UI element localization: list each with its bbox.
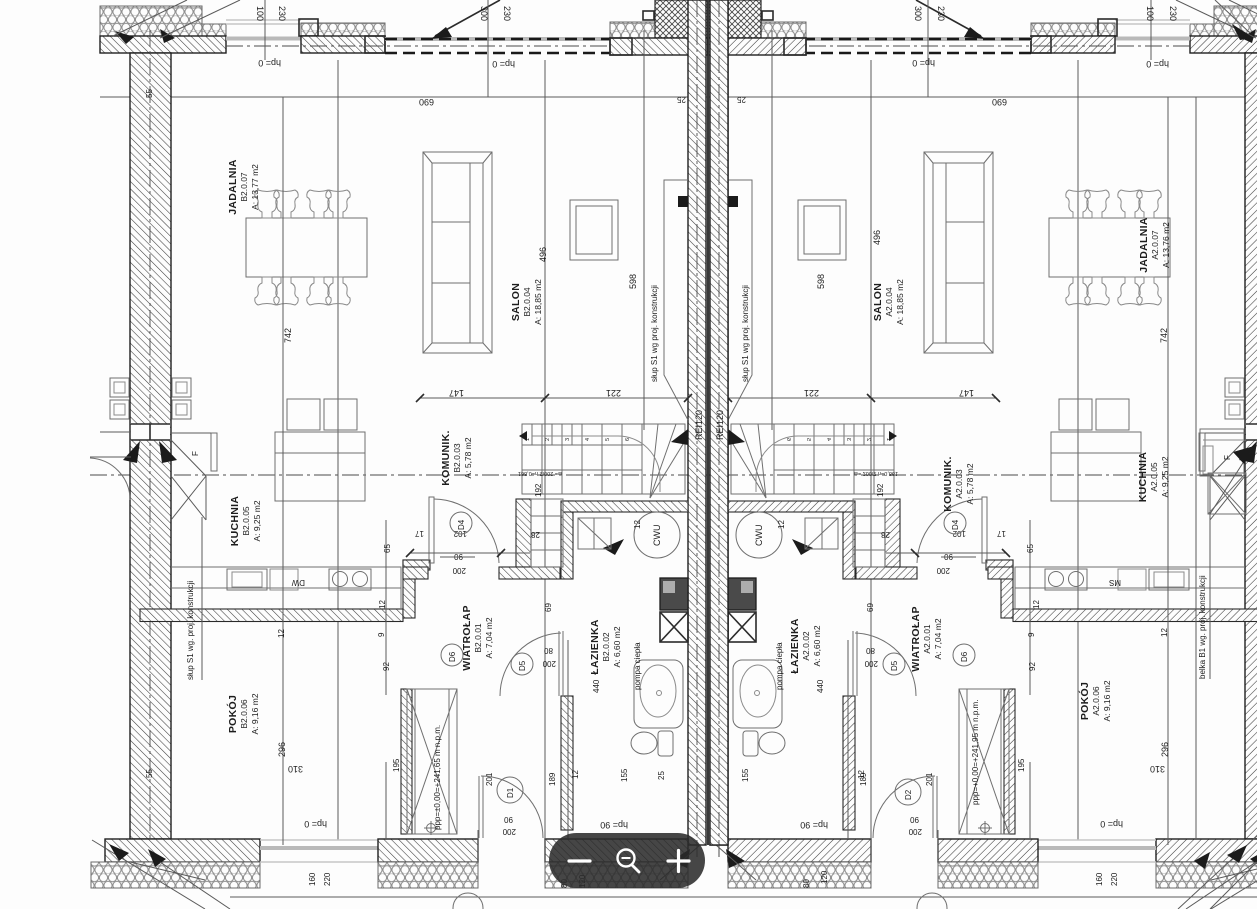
- svg-text:hp= 90: hp= 90: [600, 820, 628, 830]
- bottom wall middle segment: [378, 839, 478, 862]
- heat pump dark boxes: [660, 578, 688, 610]
- bathroom left wall lower segment: [561, 696, 573, 830]
- svg-text:A: 7,04 m2: A: 7,04 m2: [484, 617, 494, 658]
- heat pump unit upper: [578, 518, 611, 549]
- svg-text:A2.0.02: A2.0.02: [801, 631, 811, 661]
- door balloon D6 right: [953, 644, 975, 666]
- svg-text:310: 310: [288, 764, 303, 774]
- central flange hatched band (left half): [610, 38, 708, 55]
- stair tread numbers: [518, 438, 631, 476]
- wiatrolap left vertical wall: [403, 560, 415, 618]
- bathroom top wall: [563, 501, 688, 512]
- column S1 outline beside central wall: [664, 180, 688, 420]
- svg-text:A: 9,25 m2: A: 9,25 m2: [1160, 456, 1170, 497]
- svg-text:80: 80: [866, 646, 875, 655]
- svg-text:80: 80: [544, 646, 553, 655]
- room label KUCHNIA left: [229, 496, 262, 547]
- door balloon D5 left: [511, 653, 533, 675]
- svg-text:12: 12: [777, 520, 786, 529]
- svg-text:90: 90: [504, 815, 513, 824]
- svg-text:92: 92: [1028, 662, 1037, 671]
- svg-text:12: 12: [378, 600, 387, 609]
- svg-text:JADALNIA: JADALNIA: [1138, 217, 1150, 273]
- dim line bottom y=783: [385, 762, 387, 839]
- svg-text:12: 12: [857, 770, 866, 779]
- svg-text:A: 9,25 m2: A: 9,25 m2: [252, 500, 262, 541]
- svg-text:69: 69: [866, 603, 875, 612]
- svg-text:hp= 90: hp= 90: [800, 820, 828, 830]
- svg-text:496: 496: [538, 247, 548, 262]
- top arrow leader into opening: [435, 0, 500, 36]
- svg-text:KOMUNIK.: KOMUNIK.: [440, 430, 452, 485]
- svg-text:92: 92: [382, 662, 391, 671]
- svg-text:12: 12: [277, 629, 286, 638]
- svg-text:pompa ciepła: pompa ciepła: [775, 642, 784, 690]
- svg-text:belka B1 wg. proj. konstrukcji: belka B1 wg. proj. konstrukcji: [1198, 575, 1207, 679]
- svg-text:598: 598: [628, 274, 638, 289]
- gray sill band across big opening: [385, 37, 610, 41]
- svg-text:POKÓJ: POKÓJ: [226, 695, 239, 733]
- svg-text:5: 5: [605, 438, 611, 441]
- svg-text:A: 5,78 m2: A: 5,78 m2: [463, 437, 473, 478]
- svg-text:90: 90: [910, 815, 919, 824]
- svg-text:147: 147: [449, 388, 464, 398]
- svg-text:65: 65: [383, 544, 392, 553]
- bottom window: [260, 846, 378, 850]
- under-stairs wall vertical: [516, 499, 531, 567]
- svg-text:200: 200: [936, 566, 950, 575]
- door balloon D1: [497, 777, 523, 803]
- svg-text:12: 12: [633, 520, 642, 529]
- svg-text:201: 201: [925, 772, 934, 786]
- svg-text:192: 192: [534, 483, 543, 497]
- room label POKOJ right: [1078, 680, 1112, 721]
- belka underline: [1209, 513, 1211, 679]
- room label SALON left: [510, 279, 543, 325]
- svg-text:KUCHNIA: KUCHNIA: [229, 496, 241, 547]
- svg-text:55: 55: [145, 769, 154, 778]
- svg-text:155: 155: [741, 768, 750, 782]
- stairs walking line arc: [532, 436, 660, 492]
- bathroom left wall upper: [561, 501, 573, 579]
- door balloon D5 right: [883, 653, 905, 675]
- svg-text:POKÓJ: POKÓJ: [1078, 682, 1091, 720]
- svg-text:A: 13,76 m2: A: 13,76 m2: [1161, 222, 1171, 268]
- svg-text:230: 230: [1168, 6, 1178, 21]
- svg-text:WIATROŁAP: WIATROŁAP: [910, 606, 922, 672]
- window W1 glazing: [226, 37, 301, 41]
- svg-text:120: 120: [820, 870, 829, 884]
- svg-text:D4: D4: [457, 519, 466, 530]
- svg-text:B2.0.01: B2.0.01: [473, 623, 483, 653]
- svg-text:195: 195: [1017, 758, 1026, 772]
- svg-text:pompa ciepła: pompa ciepła: [633, 642, 642, 690]
- svg-text:CWU: CWU: [652, 525, 662, 547]
- svg-text:D5: D5: [518, 660, 527, 671]
- room label LAZIENKA right: [789, 618, 822, 674]
- vertical dimension line x=283 left unit: [282, 97, 284, 845]
- svg-text:160: 160: [1095, 872, 1104, 886]
- door D1 leaf and arc: [481, 776, 543, 838]
- svg-text:25: 25: [737, 95, 746, 104]
- svg-text:300: 300: [479, 6, 489, 21]
- svg-text:REI120: REI120: [715, 410, 725, 440]
- black pier box at flange left end: [610, 38, 632, 55]
- svg-text:69: 69: [544, 603, 553, 612]
- svg-text:F: F: [191, 451, 200, 456]
- svg-text:hp= 0: hp= 0: [492, 59, 515, 69]
- svg-text:17: 17: [415, 529, 424, 538]
- door balloon D4 left: [450, 512, 472, 534]
- stairs grid: [522, 424, 688, 498]
- arrow at party wall bottom: [671, 849, 690, 868]
- svg-text:B2.0.03: B2.0.03: [452, 443, 462, 473]
- window leaf F: [211, 433, 217, 471]
- bottom wall segment right of door D1: [545, 839, 688, 862]
- svg-text:MS: MS: [1109, 578, 1121, 587]
- svg-text:A: 6,60 m2: A: 6,60 m2: [612, 626, 622, 667]
- room label WIATROLAP right: [910, 606, 943, 672]
- svg-text:słup S1 wg. proj. konstrukcji: słup S1 wg. proj. konstrukcji: [186, 581, 195, 680]
- svg-text:JADALNIA: JADALNIA: [227, 159, 239, 215]
- svg-text:200: 200: [452, 566, 466, 575]
- svg-text:B2.0.05: B2.0.05: [241, 506, 251, 536]
- dining table: [246, 218, 367, 277]
- svg-text:KUCHNIA: KUCHNIA: [1137, 452, 1149, 503]
- svg-text:221: 221: [804, 388, 819, 398]
- svg-text:25: 25: [677, 95, 686, 104]
- svg-text:A2.0.03: A2.0.03: [954, 469, 964, 499]
- svg-text:A: 9,16 m2: A: 9,16 m2: [250, 693, 260, 734]
- svg-text:SALON: SALON: [510, 283, 522, 321]
- svg-text:55: 55: [145, 89, 154, 98]
- svg-text:D2: D2: [904, 789, 913, 800]
- svg-text:200: 200: [864, 659, 878, 668]
- svg-text:D1: D1: [506, 787, 515, 798]
- svg-text:B2.0.04: B2.0.04: [522, 287, 532, 317]
- door D6 leaf and arc: [429, 497, 434, 563]
- svg-text:SALON: SALON: [872, 283, 884, 321]
- svg-text:A2.0.05: A2.0.05: [1149, 462, 1159, 492]
- svg-text:742: 742: [283, 328, 293, 343]
- svg-text:300: 300: [913, 6, 923, 21]
- svg-text:296: 296: [1160, 742, 1170, 757]
- svg-text:200: 200: [908, 827, 922, 836]
- room label JADALNIA left: [227, 159, 260, 215]
- svg-text:A2.0.04: A2.0.04: [884, 287, 894, 317]
- svg-text:D6: D6: [960, 651, 969, 662]
- sink: [227, 569, 267, 590]
- chairs top row: [255, 190, 350, 218]
- CWU tank circle: [634, 512, 680, 558]
- heavy dashed terrace lines in big opening: [385, 38, 610, 41]
- svg-text:hp= 0: hp= 0: [1146, 59, 1169, 69]
- door D5 leaf and arc: [500, 633, 561, 696]
- top-left insulation band: [100, 6, 202, 36]
- svg-text:192: 192: [876, 483, 885, 497]
- kitchen island: [275, 432, 365, 501]
- dishwasher: [270, 569, 298, 590]
- svg-text:147: 147: [959, 388, 974, 398]
- svg-text:742: 742: [1159, 328, 1169, 343]
- stove: [329, 569, 371, 590]
- svg-text:ŁAZIENKA: ŁAZIENKA: [589, 619, 601, 675]
- right wall X-braced box: [1208, 473, 1246, 514]
- svg-text:9: 9: [377, 632, 386, 637]
- svg-text:220: 220: [323, 872, 332, 886]
- top-left hatched wall band: [100, 36, 226, 53]
- central wall joint line: [707, 0, 709, 845]
- exterior side door arc at left wall: [90, 458, 130, 500]
- kitchen counter edge: [171, 567, 401, 609]
- bottom wall band: left corner segment: [105, 839, 260, 862]
- room label KUCHNIA right: [1137, 452, 1170, 503]
- svg-text:598: 598: [816, 274, 826, 289]
- svg-text:230: 230: [502, 6, 512, 21]
- svg-text:B2.0.07: B2.0.07: [239, 172, 249, 202]
- svg-text:160: 160: [308, 872, 317, 886]
- central flange cross-hatched core (left half): [655, 0, 708, 38]
- svg-text:w= 200/2 h=0,861: w= 200/2 h=0,861: [518, 470, 563, 476]
- door balloon D2: [895, 779, 921, 805]
- svg-text:REI120: REI120: [694, 410, 704, 440]
- svg-text:221: 221: [606, 388, 621, 398]
- svg-text:A: 5,78 m2: A: 5,78 m2: [965, 463, 975, 504]
- left unit geometry (mirrored later for right unit): [90, 0, 708, 909]
- X brace right of wall: [171, 440, 206, 476]
- svg-text:3: 3: [565, 438, 571, 441]
- svg-text:220: 220: [1110, 872, 1119, 886]
- svg-text:12: 12: [571, 770, 580, 779]
- kitchen stools: [287, 399, 320, 430]
- svg-text:6: 6: [625, 438, 631, 441]
- room label POKOJ left: [226, 693, 260, 734]
- svg-text:195: 195: [392, 758, 401, 772]
- wall segment 2 hatch: [301, 36, 385, 53]
- section dash-dot line y=475: [90, 474, 708, 476]
- central wall left strip: [688, 0, 706, 845]
- vertical dimension line x=488: [487, 0, 489, 97]
- shaft with X bracing: [407, 689, 457, 834]
- WC: [658, 731, 673, 756]
- svg-text:WIATROŁAP: WIATROŁAP: [461, 605, 473, 671]
- vertical dimension line x=644: [643, 30, 645, 430]
- small dim ticks at D6: [410, 552, 530, 554]
- svg-text:A: 18,85 m2: A: 18,85 m2: [895, 279, 905, 325]
- shaft side wall: [401, 689, 412, 834]
- central flange insulation (left half): [610, 22, 655, 38]
- sill lines left of wall: [100, 431, 131, 433]
- left wall dash-dot centerline: [149, 30, 151, 880]
- svg-text:80: 80: [802, 879, 811, 888]
- svg-text:2: 2: [545, 438, 551, 441]
- corridor wall segment left of door D4: [403, 567, 428, 579]
- svg-text:ppp=±0,00=+241,65 m n.p.m.: ppp=±0,00=+241,65 m n.p.m.: [433, 725, 442, 830]
- svg-text:B2.0.06: B2.0.06: [239, 699, 249, 729]
- svg-text:F: F: [1223, 455, 1232, 460]
- svg-text:25: 25: [657, 771, 666, 780]
- svg-text:A2.0.06: A2.0.06: [1091, 686, 1101, 716]
- svg-text:440: 440: [592, 679, 601, 693]
- salon dimension line y=398: [420, 397, 688, 399]
- svg-text:690: 690: [992, 97, 1007, 107]
- door balloon D4 right: [944, 512, 966, 534]
- wall segment 2 insulation: [301, 23, 385, 36]
- vertical dim line x=568 lower: [567, 640, 569, 839]
- svg-text:65: 65: [1026, 544, 1035, 553]
- svg-text:A: 6,60 m2: A: 6,60 m2: [812, 625, 822, 666]
- central wall centerline: [696, 0, 698, 860]
- vertical dimension line x=265 window: [264, 0, 266, 60]
- svg-text:17: 17: [997, 529, 1006, 538]
- main horizontal dimension line y=97: [100, 96, 708, 98]
- svg-text:A2.0.07: A2.0.07: [1150, 230, 1160, 260]
- svg-text:DW: DW: [291, 578, 305, 587]
- vertical dimension line x=545: [544, 60, 546, 839]
- svg-text:100: 100: [255, 6, 265, 21]
- beam B1 line: [1195, 97, 1197, 838]
- room label KOMUNIK right: [942, 456, 975, 511]
- wall joint white break: [131, 424, 170, 440]
- bottom-right corner diagonal: [1178, 836, 1257, 909]
- corridor wall segment right of door D4: [499, 567, 560, 579]
- bottom dimension balloon right (cut): [917, 893, 947, 909]
- svg-text:200: 200: [542, 659, 556, 668]
- vertical dimension line x=338: [337, 60, 339, 840]
- dark pier box above segment2: [299, 19, 318, 36]
- svg-text:28: 28: [881, 530, 890, 539]
- svg-text:KOMUNIK.: KOMUNIK.: [942, 456, 954, 511]
- svg-text:D4: D4: [951, 519, 960, 530]
- under-stairs storage grid: [531, 499, 563, 567]
- svg-text:4: 4: [585, 438, 591, 441]
- room label SALON right: [872, 279, 905, 325]
- room label WIATROLAP left: [461, 605, 494, 671]
- room label JADALNIA right: [1138, 217, 1171, 273]
- svg-text:A: 13,77 m2: A: 13,77 m2: [250, 164, 260, 210]
- svg-text:9: 9: [1027, 632, 1036, 637]
- vertical dim line x=386: [385, 520, 387, 695]
- kitchen interior wall y=607: [140, 609, 403, 622]
- svg-text:hp= 0: hp= 0: [1100, 819, 1123, 829]
- door balloon D6 left: [441, 644, 463, 666]
- svg-text:12: 12: [1032, 600, 1041, 609]
- svg-text:D5: D5: [890, 660, 899, 671]
- arrow to central wall from stairs: [671, 429, 688, 445]
- joint arrows: [123, 441, 140, 463]
- svg-text:690: 690: [419, 97, 434, 107]
- svg-text:A: 7,04 m2: A: 7,04 m2: [933, 618, 943, 659]
- svg-text:D6: D6: [448, 651, 457, 662]
- right unit: mirrored copy of left unit geometry: [708, 0, 1257, 909]
- arrow near CWU: [603, 539, 624, 555]
- left wall top joint marks: [115, 31, 134, 44]
- svg-text:189: 189: [548, 772, 557, 786]
- svg-text:A2.0.01: A2.0.01: [922, 624, 932, 654]
- zoom control pill: [549, 833, 705, 888]
- window F nested squares left wall: [110, 378, 129, 397]
- top right corner arrow: [1215, 0, 1250, 33]
- svg-text:440: 440: [816, 679, 825, 693]
- svg-text:310: 310: [1150, 764, 1165, 774]
- vertical dimension line x=1168 right unit: [1167, 97, 1169, 845]
- bathtub: [634, 660, 683, 728]
- svg-text:28: 28: [531, 530, 540, 539]
- shaft survey mark: [427, 824, 436, 833]
- bottom-left corner diagonals: [92, 840, 205, 909]
- armchair / side table salon: [570, 200, 618, 260]
- svg-text:A: 9,16 m2: A: 9,16 m2: [1102, 680, 1112, 721]
- svg-text:słup S1 wg proj. konstrukcji: słup S1 wg proj. konstrukcji: [741, 285, 750, 382]
- svg-text:201: 201: [485, 772, 494, 786]
- left outer wall: [130, 53, 171, 839]
- small mark on flange: [643, 11, 654, 20]
- bottom dimension balloon left (cut): [453, 893, 483, 909]
- svg-text:słup S1 wg proj. konstrukcji: słup S1 wg proj. konstrukcji: [650, 285, 659, 382]
- svg-text:200: 200: [502, 827, 516, 836]
- svg-text:ppp=+0,00=+241,95 m n.p.m.: ppp=+0,00=+241,95 m n.p.m.: [971, 700, 980, 805]
- svg-text:100: 100: [1145, 6, 1155, 21]
- sofa: [423, 152, 492, 353]
- svg-text:A: 18,85 m2: A: 18,85 m2: [533, 279, 543, 325]
- svg-text:hp= 0: hp= 0: [258, 58, 281, 68]
- svg-text:CWU: CWU: [754, 525, 764, 547]
- svg-text:hp= 0: hp= 0: [304, 819, 327, 829]
- chairs bottom row: [255, 277, 350, 305]
- svg-text:230: 230: [936, 6, 946, 21]
- svg-text:B2.0.02: B2.0.02: [601, 632, 611, 662]
- svg-text:155: 155: [620, 768, 629, 782]
- right wall corner arrow: [1210, 452, 1250, 514]
- room label KOMUNIK left: [440, 430, 473, 485]
- right wall window F detail: [1200, 429, 1244, 476]
- room label LAZIENKA left: [589, 619, 622, 675]
- global bottom reference line: [230, 896, 1257, 898]
- bottom-left wall tail marks: [477, 830, 479, 862]
- svg-text:496: 496: [872, 230, 882, 245]
- central wall tick mark y=200: [678, 196, 688, 207]
- svg-text:ŁAZIENKA: ŁAZIENKA: [789, 618, 801, 674]
- svg-text:12: 12: [1160, 628, 1169, 637]
- black pier box at segment2 right: [365, 36, 385, 53]
- svg-text:hp= 0: hp= 0: [912, 58, 935, 68]
- svg-text:296: 296: [277, 742, 287, 757]
- svg-text:230: 230: [277, 6, 287, 21]
- party wall right strip (hatch direction fix): [710, 0, 728, 845]
